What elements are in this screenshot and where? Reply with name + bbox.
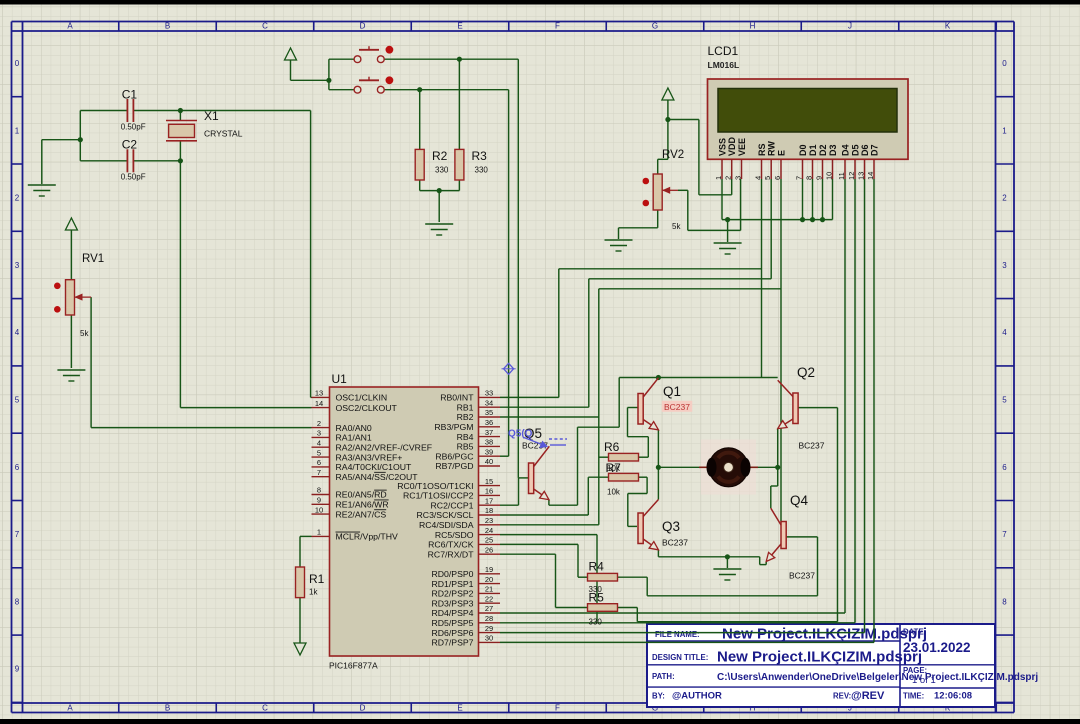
svg-text:13: 13	[856, 172, 865, 180]
svg-text:330: 330	[589, 618, 603, 627]
svg-text:9: 9	[15, 665, 20, 674]
svg-text:B: B	[165, 704, 170, 713]
svg-text:3: 3	[733, 176, 742, 180]
svg-text:8: 8	[15, 597, 20, 606]
svg-text:RC0/T1OSO/T1CKI: RC0/T1OSO/T1CKI	[397, 481, 473, 491]
svg-text:OSC2/CLKOUT: OSC2/CLKOUT	[336, 403, 398, 413]
svg-text:9: 9	[814, 176, 823, 180]
svg-text:RD0/PSP0: RD0/PSP0	[431, 569, 473, 579]
svg-text:4: 4	[1002, 328, 1007, 337]
svg-text:13: 13	[315, 389, 323, 398]
svg-text:25: 25	[485, 536, 493, 545]
svg-text:D1: D1	[808, 144, 818, 156]
svg-text:RB5: RB5	[457, 442, 474, 452]
svg-text:CRYSTAL: CRYSTAL	[204, 129, 243, 139]
svg-text:RE1/AN6/WR: RE1/AN6/WR	[336, 500, 389, 510]
svg-text:10k: 10k	[607, 488, 621, 497]
svg-text:4: 4	[753, 176, 762, 180]
svg-text:RD3/PSP3: RD3/PSP3	[431, 598, 473, 608]
svg-text:C2: C2	[122, 138, 138, 152]
svg-text:6: 6	[15, 463, 20, 472]
svg-text:B: B	[165, 22, 170, 31]
svg-text:10: 10	[824, 172, 833, 180]
svg-text:RC6/TX/CK: RC6/TX/CK	[428, 540, 474, 550]
svg-text:Q2: Q2	[797, 365, 815, 380]
svg-text:11: 11	[837, 172, 846, 180]
svg-text:PATH:: PATH:	[652, 672, 675, 681]
svg-text:40: 40	[485, 457, 493, 466]
svg-text:New Project.ILKÇIZIM.pdsprj: New Project.ILKÇIZIM.pdsprj	[717, 649, 922, 666]
svg-text:21: 21	[485, 585, 493, 594]
svg-text:38: 38	[485, 438, 493, 447]
svg-text:1: 1	[317, 528, 321, 537]
svg-text:BC237: BC237	[799, 441, 825, 451]
svg-text:VSS: VSS	[718, 138, 728, 156]
svg-text:RA2/AN2/VREF-/CVREF: RA2/AN2/VREF-/CVREF	[336, 442, 433, 452]
svg-text:5k: 5k	[80, 329, 89, 338]
svg-text:R6: R6	[604, 440, 620, 454]
svg-text:4: 4	[15, 328, 20, 337]
svg-text:0.50pF: 0.50pF	[121, 123, 146, 132]
svg-text:17: 17	[485, 496, 493, 505]
svg-text:7: 7	[317, 468, 321, 477]
svg-text:X1: X1	[204, 109, 219, 123]
svg-text:RB2: RB2	[457, 412, 474, 422]
svg-text:C1: C1	[122, 88, 138, 102]
svg-text:TIME:: TIME:	[903, 692, 924, 701]
svg-text:@AUTHOR: @AUTHOR	[672, 691, 722, 702]
svg-text:29: 29	[485, 624, 493, 633]
svg-text:C: C	[262, 22, 268, 31]
svg-text:15: 15	[485, 477, 493, 486]
svg-text:PIC16F877A: PIC16F877A	[329, 661, 378, 671]
svg-text:330: 330	[475, 166, 489, 175]
svg-text:RD6/PSP6: RD6/PSP6	[431, 628, 473, 638]
svg-text:330: 330	[435, 166, 449, 175]
svg-text:G: G	[652, 22, 658, 31]
svg-text:VEE: VEE	[737, 138, 747, 156]
svg-text:9: 9	[317, 496, 321, 505]
svg-text:A: A	[67, 704, 73, 713]
svg-text:26: 26	[485, 545, 493, 554]
svg-text:D5: D5	[851, 144, 861, 156]
svg-text:3: 3	[317, 429, 321, 438]
svg-text:8: 8	[804, 176, 813, 180]
svg-text:A: A	[67, 22, 73, 31]
svg-text:BC237: BC237	[664, 402, 690, 412]
svg-text:3: 3	[1002, 261, 1007, 270]
svg-text:BC237: BC237	[789, 571, 815, 581]
svg-text:REV:: REV:	[833, 692, 851, 701]
svg-text:37: 37	[485, 428, 493, 437]
svg-text:14: 14	[866, 172, 875, 180]
svg-text:2: 2	[15, 194, 20, 203]
svg-text:10: 10	[315, 505, 323, 514]
svg-text:D2: D2	[818, 144, 828, 156]
svg-text:6: 6	[317, 458, 321, 467]
svg-text:R1: R1	[309, 572, 325, 586]
svg-text:F: F	[555, 704, 560, 713]
svg-text:RD4/PSP4: RD4/PSP4	[431, 608, 473, 618]
svg-text:7: 7	[1002, 530, 1007, 539]
svg-text:@REV: @REV	[851, 690, 885, 702]
svg-text:D: D	[360, 22, 366, 31]
svg-text:5: 5	[1002, 396, 1007, 405]
svg-text:Q4: Q4	[790, 493, 809, 508]
svg-text:RD2/PSP2: RD2/PSP2	[431, 589, 473, 599]
svg-text:C: C	[262, 704, 268, 713]
svg-text:33: 33	[485, 389, 493, 398]
svg-text:34: 34	[485, 398, 493, 407]
svg-text:VDD: VDD	[727, 136, 737, 156]
svg-text:RE0/AN5/RD: RE0/AN5/RD	[336, 490, 387, 500]
svg-text:36: 36	[485, 418, 493, 427]
svg-text:27: 27	[485, 604, 493, 613]
svg-text:RW: RW	[767, 141, 777, 156]
svg-text:Q5(Q: Q5(Q	[508, 429, 533, 440]
svg-text:DESIGN TITLE:: DESIGN TITLE:	[652, 653, 708, 662]
svg-text:RC7/RX/DT: RC7/RX/DT	[428, 549, 475, 559]
svg-text:7: 7	[794, 176, 803, 180]
svg-text:16: 16	[485, 487, 493, 496]
svg-text:1: 1	[1002, 126, 1007, 135]
svg-text:5: 5	[15, 396, 20, 405]
svg-text:RB4: RB4	[457, 432, 474, 442]
svg-text:39: 39	[485, 447, 493, 456]
svg-text:2: 2	[724, 176, 733, 180]
svg-text:U1: U1	[332, 372, 348, 386]
svg-text:H: H	[750, 22, 756, 31]
svg-text:0: 0	[1002, 59, 1007, 68]
svg-text:23: 23	[485, 516, 493, 525]
svg-text:0.50pF: 0.50pF	[121, 173, 146, 182]
svg-text:Q1: Q1	[663, 384, 681, 399]
svg-text:E: E	[777, 150, 787, 156]
svg-text:6: 6	[773, 176, 782, 180]
svg-text:D0: D0	[798, 144, 808, 156]
svg-text:RC4/SDI/SDA: RC4/SDI/SDA	[419, 520, 474, 530]
svg-text:R4: R4	[589, 560, 605, 574]
svg-text:RB3/PGM: RB3/PGM	[434, 422, 473, 432]
svg-text:6: 6	[1002, 463, 1007, 472]
svg-text:R3: R3	[472, 149, 488, 163]
svg-text:D: D	[360, 704, 366, 713]
svg-text:4: 4	[317, 438, 321, 447]
svg-text:RB6/PGC: RB6/PGC	[435, 451, 473, 461]
svg-text:35: 35	[485, 408, 493, 417]
svg-text:RC2/CCP1: RC2/CCP1	[431, 500, 474, 510]
svg-text:8: 8	[317, 486, 321, 495]
svg-text:K: K	[945, 22, 951, 31]
svg-text:C:\Users\Anwender\OneDrive\Bel: C:\Users\Anwender\OneDrive\Belgeler\New …	[717, 672, 1038, 683]
svg-text:DATE:: DATE:	[903, 628, 926, 637]
svg-text:23.01.2022: 23.01.2022	[903, 640, 971, 655]
svg-text:5: 5	[317, 448, 321, 457]
svg-text:RC1/T1OSI/CCP2: RC1/T1OSI/CCP2	[403, 491, 474, 501]
svg-text:8: 8	[1002, 597, 1007, 606]
svg-text:24: 24	[485, 526, 493, 535]
svg-text:RC3/SCK/SCL: RC3/SCK/SCL	[417, 510, 474, 520]
svg-text:22: 22	[485, 594, 493, 603]
svg-text:LCD1: LCD1	[708, 44, 739, 58]
svg-text:RD7/PSP7: RD7/PSP7	[431, 638, 473, 648]
svg-text:14: 14	[315, 399, 323, 408]
svg-text:D6: D6	[860, 144, 870, 156]
svg-text:RA4/T0CKI/C1OUT: RA4/T0CKI/C1OUT	[336, 462, 412, 472]
svg-text:RV2: RV2	[662, 149, 684, 161]
svg-text:Q3: Q3	[662, 519, 680, 534]
svg-text:LM016L: LM016L	[708, 60, 740, 70]
svg-text:19: 19	[485, 565, 493, 574]
svg-text:20: 20	[485, 575, 493, 584]
svg-text:3: 3	[15, 261, 20, 270]
svg-text:1k: 1k	[309, 588, 318, 597]
svg-text:R5: R5	[589, 591, 605, 605]
svg-text:2: 2	[1002, 194, 1007, 203]
svg-text:MCLR/Vpp/THV: MCLR/Vpp/THV	[336, 532, 398, 542]
svg-text:28: 28	[485, 614, 493, 623]
svg-text:FILE NAME:: FILE NAME:	[655, 630, 700, 639]
svg-text:RB7/PGD: RB7/PGD	[435, 461, 473, 471]
svg-text:7: 7	[15, 530, 20, 539]
svg-text:RA0/AN0: RA0/AN0	[336, 423, 372, 433]
svg-text:F: F	[555, 22, 560, 31]
svg-text:New Project.ILKÇIZIM.pdsprj: New Project.ILKÇIZIM.pdsprj	[722, 626, 927, 643]
svg-text:J: J	[848, 22, 852, 31]
svg-text:5: 5	[763, 176, 772, 180]
svg-text:RS: RS	[757, 143, 767, 156]
svg-text:E: E	[457, 22, 462, 31]
svg-text:RC5/SDO: RC5/SDO	[435, 530, 474, 540]
svg-text:RB1: RB1	[457, 402, 474, 412]
svg-text:RA1/AN1: RA1/AN1	[336, 433, 372, 443]
svg-text:D3: D3	[828, 144, 838, 156]
svg-text:D4: D4	[841, 144, 851, 156]
svg-text:RV1: RV1	[82, 253, 104, 265]
svg-text:30: 30	[485, 634, 493, 643]
svg-text:BY:: BY:	[652, 692, 665, 701]
svg-text:RE2/AN7/CS: RE2/AN7/CS	[336, 509, 387, 519]
svg-text:RB0/INT: RB0/INT	[440, 393, 474, 403]
svg-text:2: 2	[317, 419, 321, 428]
svg-text:18: 18	[485, 506, 493, 515]
svg-text:RD1/PSP1: RD1/PSP1	[431, 579, 473, 589]
svg-text:0: 0	[15, 59, 20, 68]
svg-text:E: E	[457, 704, 462, 713]
svg-text:BC237: BC237	[662, 538, 688, 548]
svg-text:OSC1/CLKIN: OSC1/CLKIN	[336, 393, 388, 403]
svg-text:1: 1	[15, 126, 20, 135]
svg-text:12:06:08: 12:06:08	[934, 691, 972, 702]
svg-text:1: 1	[714, 176, 723, 180]
svg-text:R7: R7	[606, 461, 622, 475]
svg-text:RD5/PSP5: RD5/PSP5	[431, 618, 473, 628]
svg-text:12: 12	[847, 172, 856, 180]
svg-text:R2: R2	[432, 149, 448, 163]
svg-text:RA3/AN3/VREF+: RA3/AN3/VREF+	[336, 452, 403, 462]
svg-text:5k: 5k	[672, 222, 681, 231]
svg-text:D7: D7	[870, 144, 880, 156]
